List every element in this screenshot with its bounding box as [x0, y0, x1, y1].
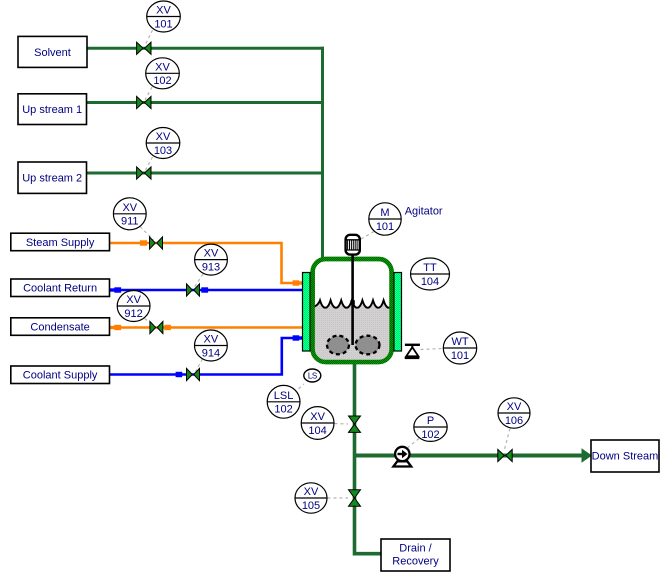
vessel border redraw	[313, 259, 392, 362]
svg-text:912: 912	[124, 308, 142, 320]
instrument circle WT101	[443, 332, 476, 364]
valve XV102	[137, 96, 151, 108]
agitator impeller right	[356, 336, 380, 355]
instrument circle XV914	[195, 330, 228, 361]
box Condensate	[11, 318, 110, 336]
instrument circle XV104	[301, 407, 334, 440]
svg-text:913: 913	[202, 261, 220, 273]
flow arrow coolant return at valve	[201, 287, 208, 292]
instrument circle XV106	[498, 398, 530, 428]
instrument connector dash P102	[408, 439, 419, 448]
wire feed collector vertical	[321, 47, 324, 262]
instrument circle XV103	[146, 128, 180, 159]
svg-text:P: P	[427, 415, 434, 427]
flow arrow coolant supply into jacket	[293, 335, 303, 340]
svg-text:LS: LS	[308, 372, 317, 381]
svg-text:104: 104	[421, 276, 439, 288]
valve XV913	[187, 284, 200, 296]
svg-text:XV: XV	[304, 486, 319, 498]
svg-text:XV: XV	[126, 294, 141, 306]
jacket left bar	[303, 273, 311, 352]
box Down Stream	[591, 440, 659, 472]
svg-text:104: 104	[308, 425, 326, 437]
instrument connector dash XV913	[195, 274, 204, 287]
svg-text:103: 103	[154, 145, 172, 157]
svg-text:Solvent: Solvent	[34, 47, 71, 59]
svg-text:XV: XV	[204, 248, 219, 260]
svg-text:XV: XV	[122, 202, 137, 214]
instrument circle XV911	[113, 198, 146, 230]
instrument connector dash WT101	[421, 349, 443, 350]
wire up stream 1 line	[87, 101, 324, 104]
valve XV106	[498, 449, 512, 461]
instrument connector dash XV106	[505, 429, 511, 450]
wire coolant return line	[110, 289, 304, 292]
valve XV101	[137, 42, 151, 54]
box Coolant Return	[11, 279, 110, 297]
svg-text:XV: XV	[204, 334, 219, 346]
svg-text:911: 911	[121, 216, 139, 228]
instrument connector dash M101	[361, 232, 374, 240]
svg-text:Drain /: Drain /	[399, 543, 432, 555]
svg-text:102: 102	[421, 429, 439, 441]
box Drain Recovery	[381, 539, 450, 571]
valve XV104	[349, 416, 361, 432]
instrument connector dash XV105	[328, 497, 349, 499]
svg-text:105: 105	[302, 500, 320, 512]
svg-text:TT: TT	[423, 262, 437, 274]
instrument connector dash XV102	[145, 87, 152, 100]
svg-text:XV: XV	[155, 61, 170, 73]
valve XV914	[187, 368, 200, 380]
instrument circle M101	[369, 203, 401, 235]
wire condensate line	[110, 326, 304, 329]
svg-text:106: 106	[505, 415, 523, 427]
box Coolant Supply	[11, 366, 110, 384]
instrument circle XV105	[295, 483, 327, 513]
wire steam supply line	[110, 243, 301, 283]
svg-text:Recovery: Recovery	[392, 556, 439, 568]
svg-text:Condensate: Condensate	[30, 322, 89, 334]
instrument connector dash XV103	[145, 157, 153, 171]
svg-text:Agitator: Agitator	[405, 205, 443, 217]
wire solvent line	[87, 47, 324, 50]
instrument circle P102	[414, 413, 447, 442]
load cell weight symbol	[405, 345, 420, 358]
vessel liquid	[310, 300, 405, 363]
agitator motor	[346, 235, 360, 255]
flow arrow steam into jacket	[293, 280, 303, 285]
flow arrow coolant supply at valve	[176, 372, 183, 377]
instrument connector dash XV101	[145, 30, 153, 46]
agitator shaft	[351, 253, 354, 345]
flow arrow condensate at box	[110, 325, 122, 330]
svg-text:XV: XV	[310, 411, 325, 423]
instrument circle XV102	[146, 58, 180, 89]
box Up stream 1	[18, 94, 87, 125]
wire up stream 2 line	[87, 172, 324, 175]
vessel liquid surface wave	[310, 300, 405, 307]
svg-text:Down Stream: Down Stream	[592, 451, 659, 463]
svg-text:101: 101	[376, 221, 394, 233]
instrument connector dash LSL102	[294, 384, 304, 393]
valve XV911	[150, 237, 163, 249]
box Solvent	[18, 36, 87, 67]
instrument circle XV101	[147, 1, 181, 32]
svg-text:XV: XV	[156, 131, 171, 143]
wire vessel bottom drain pipe	[355, 358, 382, 554]
svg-text:Coolant Supply: Coolant Supply	[23, 370, 98, 382]
svg-text:XV: XV	[156, 5, 171, 17]
svg-text:Up stream 2: Up stream 2	[22, 173, 82, 185]
instrument circle XV913	[195, 244, 228, 275]
flow arrow condensate at valve	[164, 325, 171, 330]
flow arrow into down stream box	[582, 448, 593, 462]
svg-text:102: 102	[274, 404, 292, 416]
svg-text:M: M	[380, 207, 389, 219]
reactor vessel body	[313, 259, 392, 362]
agitator impeller left	[327, 336, 349, 355]
valve XV103	[137, 167, 151, 179]
svg-text:Steam Supply: Steam Supply	[26, 237, 95, 249]
box Steam Supply	[11, 233, 110, 251]
svg-text:Up stream 1: Up stream 1	[22, 104, 82, 116]
box Up stream 2	[18, 162, 87, 193]
jacket right bar	[394, 273, 402, 352]
instrument connector dash XV911	[140, 227, 154, 241]
svg-text:XV: XV	[507, 401, 522, 413]
flow arrow coolant return at box	[110, 287, 122, 292]
instrument circle TT104	[411, 258, 450, 290]
level switch LS circle	[304, 369, 321, 382]
svg-text:LSL: LSL	[274, 390, 294, 402]
svg-text:102: 102	[153, 75, 171, 87]
pump P102	[393, 447, 411, 467]
instrument connector dash XV914	[196, 359, 203, 372]
valve XV105	[349, 490, 361, 506]
svg-text:101: 101	[154, 18, 172, 30]
flow arrow steam at valve	[140, 240, 147, 245]
instrument circle LSL102	[267, 385, 300, 418]
valve XV912	[150, 321, 163, 333]
svg-text:101: 101	[451, 350, 469, 362]
wire downstream branch line	[353, 454, 584, 458]
wire coolant supply line	[110, 338, 301, 375]
svg-text:Coolant Return: Coolant Return	[23, 283, 97, 295]
instrument circle XV912	[117, 291, 150, 322]
instrument connector dash XV104	[335, 423, 349, 426]
svg-text:914: 914	[202, 347, 220, 359]
instrument connector dash XV912	[145, 319, 155, 326]
svg-text:WT: WT	[451, 336, 468, 348]
